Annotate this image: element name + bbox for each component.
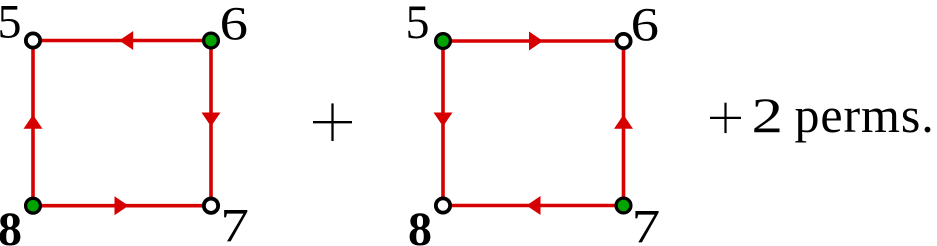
plus sign of trailing term [710, 103, 741, 133]
arrowhead right, middle of square 1 bottom edge [115, 196, 129, 215]
arrowhead up, middle of square 2 right edge [614, 115, 633, 129]
wire: square 1 left edge (8 to 5) [31, 41, 35, 206]
arrowhead left, middle of square 1 top edge [119, 31, 133, 50]
wire: square 1 bottom edge (8 to 7) [33, 204, 211, 208]
svg-text:8: 8 [0, 203, 22, 246]
svg-text:7: 7 [632, 200, 661, 246]
arrowhead down, middle of square 1 right edge [202, 113, 221, 127]
svg-text:8: 8 [408, 203, 432, 246]
arrowhead right, middle of square 2 top edge [529, 32, 543, 51]
svg-text:7: 7 [220, 199, 249, 246]
svg-text:6: 6 [631, 0, 659, 51]
node 6 square 1 (green circle) [204, 33, 219, 48]
node 8 square 1 (green circle) [26, 198, 41, 213]
node 7 square 1 (open circle) [204, 199, 218, 213]
node 8 square 2 (open circle) [436, 198, 450, 212]
wire: square 1 right edge (6 to 7) [209, 41, 213, 206]
node 5 square 1 (open circle) [26, 33, 40, 47]
svg-text:perms.: perms. [795, 87, 935, 143]
node 5 square 2 (green circle) [436, 34, 451, 49]
wire: square 2 left edge (5 to 8) [441, 41, 445, 206]
arrowhead down, middle of square 2 left edge [434, 113, 453, 127]
svg-text:2: 2 [752, 87, 784, 143]
plus sign between the two graphs [313, 103, 352, 141]
svg-text:5: 5 [406, 0, 430, 49]
node 7 square 2 (green circle) [616, 198, 631, 213]
wire: square 2 top edge (5 to 6) [443, 39, 624, 43]
svg-text:6: 6 [220, 0, 248, 51]
arrowhead up, middle of square 1 left edge [24, 115, 43, 129]
svg-text:5: 5 [0, 0, 22, 48]
wire: square 1 top edge (6 to 5) [33, 39, 211, 43]
wire: square 2 bottom edge (7 to 8) [443, 204, 624, 208]
wire: square 2 right edge (7 to 6) [622, 41, 626, 206]
node 6 square 2 (open circle) [616, 34, 630, 48]
arrowhead left, middle of square 2 bottom edge [527, 196, 541, 215]
